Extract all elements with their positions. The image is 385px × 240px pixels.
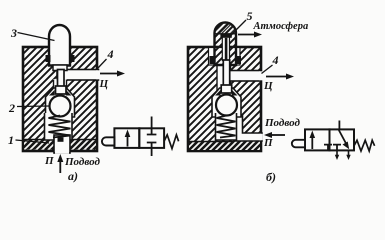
symbol b exhaust stub 1	[335, 150, 339, 160]
symbol b diagonal flow with arrow	[339, 130, 349, 149]
symbol a bottom blocked port	[147, 143, 157, 148]
svg-text:4: 4	[272, 53, 279, 67]
spring slot b (white)	[216, 113, 237, 140]
svg-text:1: 1	[8, 133, 14, 147]
bottom dark band	[24, 140, 96, 150]
spring b	[217, 116, 236, 138]
stem tip	[56, 86, 67, 94]
inlet channel (white)	[54, 135, 70, 153]
symbol b left square	[305, 129, 330, 150]
symbol b flow arrow	[310, 131, 316, 150]
symbol a push button	[102, 137, 114, 145]
atmosphere arrow	[238, 32, 262, 38]
svg-text:Подвод: Подвод	[264, 117, 300, 129]
symbol b push button	[292, 140, 305, 148]
ball b	[216, 95, 237, 116]
symbol b exhaust stub 2	[346, 150, 350, 160]
outlet arrow b	[266, 74, 294, 80]
spring	[49, 116, 71, 138]
sleeve dome cap (dense)	[215, 24, 237, 35]
leader 1	[16, 140, 50, 143]
stem tip b	[221, 85, 232, 93]
outlet arrow	[100, 71, 125, 77]
stem	[58, 70, 65, 89]
svg-text:Ц: Ц	[263, 80, 273, 92]
valve body block (hatched)	[23, 47, 97, 151]
leader 4 b	[262, 65, 273, 74]
supply arrow b (left)	[264, 132, 285, 138]
symbol a top port stub	[151, 117, 153, 129]
svg-text:Атмосфера: Атмосфера	[253, 21, 309, 32]
seat bore (white)	[54, 79, 67, 91]
inner stem T	[220, 34, 231, 38]
svg-text:Подвод: Подвод	[64, 156, 100, 168]
spring slot (white)	[45, 113, 73, 140]
sleeve seals (black)	[210, 56, 215, 64]
svg-text:5: 5	[247, 9, 253, 23]
symbol b right square	[330, 129, 355, 150]
valve seat mark a	[58, 137, 64, 142]
outlet channel (white)	[57, 70, 99, 81]
supply channel b (white)	[234, 116, 262, 141]
seat wedges (black)	[49, 90, 55, 96]
outlet channel b (white)	[227, 71, 261, 82]
seat wedges b (black)	[215, 90, 221, 96]
svg-text:Ц: Ц	[99, 78, 109, 90]
svg-text:П: П	[263, 137, 273, 149]
symbol b right blocked port	[333, 145, 341, 151]
plunger 5 (hatched sleeve)	[215, 23, 237, 66]
plunger seals (black)	[46, 55, 51, 62]
leader 3	[18, 33, 55, 41]
svg-text:2: 2	[8, 101, 15, 115]
svg-text:4: 4	[107, 47, 114, 61]
ball chamber (white)	[46, 88, 75, 117]
symbol a left square	[114, 128, 139, 148]
sleeve bore (white)	[209, 48, 241, 66]
symbol b left blocked port	[324, 145, 332, 151]
leader 5	[236, 20, 247, 31]
bottom dark band b	[189, 142, 260, 151]
supply arrow up	[57, 154, 63, 173]
ball chamber b (white)	[212, 88, 241, 117]
symbol a top blocked port	[147, 128, 157, 134]
ball 2	[50, 96, 71, 117]
symbol a right square	[139, 128, 164, 148]
bore (white)	[217, 60, 231, 93]
leader 4	[98, 59, 107, 69]
symbol a spring	[164, 135, 179, 149]
svg-text:а): а)	[68, 169, 78, 183]
symbol b top port stub	[338, 121, 340, 130]
svg-text:П: П	[44, 155, 54, 167]
symbol a flow arrow	[125, 130, 131, 147]
svg-text:б): б)	[266, 170, 276, 184]
leader 2	[17, 105, 50, 108]
symbol b spring	[354, 140, 375, 151]
plunger collar	[53, 65, 67, 71]
sleeve vent slot (white)	[222, 35, 229, 61]
stem b	[223, 60, 229, 88]
symbol a bottom port stub	[151, 148, 153, 156]
valve body block (hatched)	[188, 47, 261, 151]
svg-text:3: 3	[10, 26, 17, 40]
plunger 3 (capsule)	[49, 25, 70, 66]
